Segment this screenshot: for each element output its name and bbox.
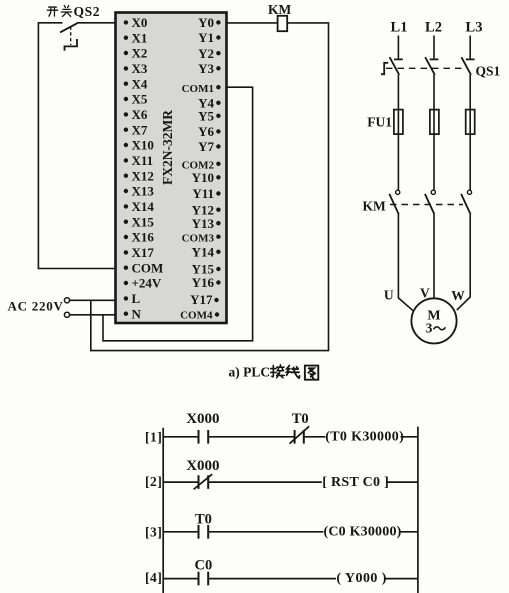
svg-text:X15: X15 bbox=[132, 214, 155, 229]
svg-text:Y7: Y7 bbox=[198, 139, 214, 154]
svg-text:COM4: COM4 bbox=[180, 310, 213, 322]
svg-text:W: W bbox=[451, 288, 465, 303]
svg-text:U: U bbox=[384, 287, 394, 302]
svg-text:Y0: Y0 bbox=[198, 15, 214, 30]
svg-text:X16: X16 bbox=[132, 230, 155, 245]
svg-text:a) PLC: a) PLC bbox=[229, 365, 271, 380]
svg-text:COM3: COM3 bbox=[182, 232, 215, 244]
svg-text:Y13: Y13 bbox=[192, 216, 215, 231]
svg-text:X5: X5 bbox=[132, 92, 148, 107]
svg-text:X7: X7 bbox=[132, 122, 148, 137]
svg-text:T0: T0 bbox=[292, 411, 309, 427]
svg-text:X3: X3 bbox=[132, 61, 148, 76]
svg-text:Y10: Y10 bbox=[192, 170, 214, 185]
svg-text:X000: X000 bbox=[186, 411, 219, 427]
svg-text:FU1: FU1 bbox=[367, 115, 392, 130]
svg-text:X000: X000 bbox=[186, 458, 219, 474]
svg-text:T0: T0 bbox=[195, 511, 212, 527]
svg-text:QS1: QS1 bbox=[476, 64, 501, 79]
svg-text:Y11: Y11 bbox=[192, 186, 214, 201]
svg-text:QS2: QS2 bbox=[74, 4, 101, 19]
svg-text:X0: X0 bbox=[132, 15, 148, 30]
svg-text:3: 3 bbox=[426, 321, 433, 336]
svg-text:(C0 K30000): (C0 K30000) bbox=[324, 525, 402, 540]
svg-text:[ RST C0 ]: [ RST C0 ] bbox=[322, 475, 389, 490]
svg-text:[3]: [3] bbox=[145, 524, 163, 539]
svg-text:[4]: [4] bbox=[145, 570, 163, 585]
svg-text:Y5: Y5 bbox=[198, 108, 214, 123]
svg-text:Y2: Y2 bbox=[198, 46, 214, 61]
svg-text:X11: X11 bbox=[132, 153, 154, 168]
svg-text:L3: L3 bbox=[466, 20, 483, 36]
svg-text:L: L bbox=[132, 291, 141, 306]
svg-text:L2: L2 bbox=[425, 20, 442, 36]
svg-text:X10: X10 bbox=[132, 138, 154, 153]
svg-text:AC 220V: AC 220V bbox=[8, 299, 64, 314]
svg-text:KM: KM bbox=[363, 199, 387, 214]
svg-text:Y17: Y17 bbox=[190, 292, 213, 307]
svg-text:X12: X12 bbox=[132, 168, 154, 183]
svg-text:L1: L1 bbox=[391, 20, 408, 36]
svg-text:X1: X1 bbox=[132, 30, 148, 45]
svg-text:N: N bbox=[132, 306, 142, 321]
svg-text:FX2N-32MR: FX2N-32MR bbox=[160, 110, 175, 185]
svg-text:V: V bbox=[420, 285, 430, 300]
svg-text:(T0 K30000): (T0 K30000) bbox=[325, 429, 404, 444]
svg-text:COM1: COM1 bbox=[182, 83, 214, 95]
svg-text:X17: X17 bbox=[132, 245, 155, 260]
svg-text:+24V: +24V bbox=[132, 276, 162, 291]
svg-text:KM: KM bbox=[268, 2, 292, 17]
svg-text:C0: C0 bbox=[195, 557, 213, 573]
svg-text:Y1: Y1 bbox=[198, 30, 214, 45]
svg-text:X2: X2 bbox=[132, 46, 148, 61]
svg-text:X6: X6 bbox=[132, 107, 148, 122]
svg-text:[1]: [1] bbox=[145, 429, 163, 444]
svg-text:X13: X13 bbox=[132, 184, 155, 199]
svg-text:Y16: Y16 bbox=[192, 275, 215, 290]
svg-text:[2]: [2] bbox=[145, 474, 163, 489]
svg-text:Y3: Y3 bbox=[198, 61, 214, 76]
svg-text:X14: X14 bbox=[132, 199, 155, 214]
svg-text:COM: COM bbox=[132, 260, 164, 275]
svg-text:( Y000 ): ( Y000 ) bbox=[336, 571, 387, 586]
svg-text:Y6: Y6 bbox=[198, 124, 214, 139]
svg-text:Y14: Y14 bbox=[192, 244, 215, 259]
svg-text:X4: X4 bbox=[132, 76, 148, 91]
